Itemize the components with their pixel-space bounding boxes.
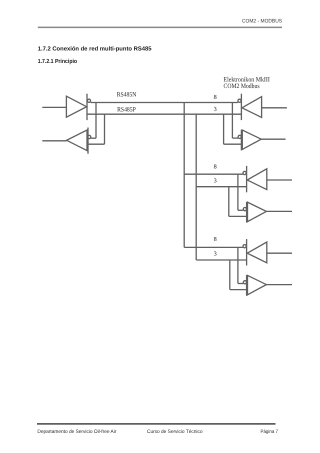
wire device 2 driver output	[267, 179, 292, 181]
U1B input bar	[87, 128, 89, 154]
wire device 3 driver output	[267, 252, 292, 254]
buffer device 1 receiver (right-pointing)	[242, 130, 261, 149]
device 1 receiver inverting bubble	[238, 135, 241, 138]
svg-text:Departamento de Servicio Oil-f: Departamento de Servicio Oil-free Air	[37, 429, 116, 435]
svg-text:RS485N: RS485N	[117, 92, 137, 99]
device 2 receiver inverting bubble	[243, 208, 246, 211]
svg-text:8: 8	[214, 164, 217, 171]
wire N drop to device 2 receiver	[237, 174, 239, 210]
wire device 3 receiver bubble tap	[238, 283, 243, 285]
wire N drop to U1B	[95, 103, 97, 139]
wire U1B lower tap	[88, 143, 105, 145]
svg-text:3: 3	[214, 178, 217, 185]
buffer device 3 receiver (right-pointing)	[248, 275, 267, 294]
wire RS485N trunk drop	[183, 103, 185, 248]
wire device 1 receiver bubble tap	[232, 137, 238, 139]
svg-text:8: 8	[214, 94, 217, 101]
svg-text:RS485P: RS485P	[117, 107, 136, 114]
wire device 2 N branch	[184, 173, 243, 175]
buffer device 2 receiver (right-pointing)	[248, 202, 267, 221]
svg-text:8: 8	[214, 236, 217, 243]
wire P drop to U1B	[104, 114, 106, 144]
wire P drop to device 3 receiver	[229, 260, 231, 290]
svg-text:1.7.2.1 Principio: 1.7.2.1 Principio	[38, 58, 78, 65]
wire RS485P trunk drop	[195, 114, 197, 260]
wire device 2 P branch	[196, 186, 246, 188]
footer rule	[37, 423, 276, 424]
wire device 1 driver output	[262, 107, 287, 109]
device 1 inverting bubble (driver)	[238, 99, 241, 102]
buffer device 3 driver (left-pointing)	[247, 242, 267, 263]
device 2 inverting bubble (driver)	[243, 171, 246, 174]
device 3 receiver inverting bubble	[243, 281, 246, 284]
svg-text:1.7.2 Conexión de red multi-pu: 1.7.2 Conexión de red multi-punto RS485	[38, 45, 153, 52]
U1A output bar	[86, 94, 88, 120]
wire N drop to device 1 receiver	[231, 103, 233, 139]
buffer U1A driver (left module, right-pointing)	[66, 96, 86, 117]
wire device 1 receiver output	[261, 138, 285, 140]
wire P drop to device 2 receiver	[228, 187, 230, 217]
device 2 receiver input bar	[246, 202, 248, 223]
svg-text:3: 3	[214, 106, 217, 113]
wire N drop to device 3 receiver	[237, 247, 239, 283]
wire device 1 receiver lower tap	[224, 143, 242, 145]
wire device 3 receiver lower tap	[230, 289, 247, 291]
header rule	[38, 27, 282, 29]
svg-text:Página 7: Página 7	[261, 429, 279, 435]
svg-text:COM2 - MODBUS: COM2 - MODBUS	[242, 19, 283, 25]
svg-text:COM2 Modbus: COM2 Modbus	[224, 83, 260, 90]
wire device 3 receiver output	[266, 284, 292, 286]
wire device 2 receiver lower tap	[229, 215, 247, 217]
wire P drop to device 1 receiver	[223, 114, 225, 144]
wire device 3 P branch	[196, 259, 246, 261]
device 2 driver input bar	[246, 166, 248, 192]
svg-text:Curso de Servicio Técnico: Curso de Servicio Técnico	[147, 429, 203, 435]
device 3 driver input bar	[246, 239, 248, 265]
buffer U1B receiver (left module, left-pointing)	[67, 130, 87, 151]
wire U1A input	[42, 106, 66, 108]
wire device 2 receiver bubble tap	[238, 209, 243, 211]
wire device 2 receiver output	[266, 210, 292, 212]
U1B inverting bubble	[88, 135, 91, 138]
wire U1B output	[42, 140, 66, 142]
wire device 3 N branch	[184, 246, 243, 248]
U1A inverting bubble	[87, 99, 90, 102]
buffer device 1 driver (left-pointing)	[242, 97, 262, 118]
buffer device 2 driver (left-pointing)	[247, 169, 267, 190]
wire RS485P bus	[87, 113, 241, 115]
wire RS485N bus	[91, 102, 238, 104]
device 1 receiver input bar	[240, 130, 242, 151]
wire U1B bubble tap	[91, 137, 96, 139]
device 3 inverting bubble (driver)	[243, 245, 246, 248]
device 1 driver input bar	[240, 94, 242, 120]
svg-text:3: 3	[214, 251, 217, 258]
device 3 receiver input bar	[246, 275, 248, 296]
